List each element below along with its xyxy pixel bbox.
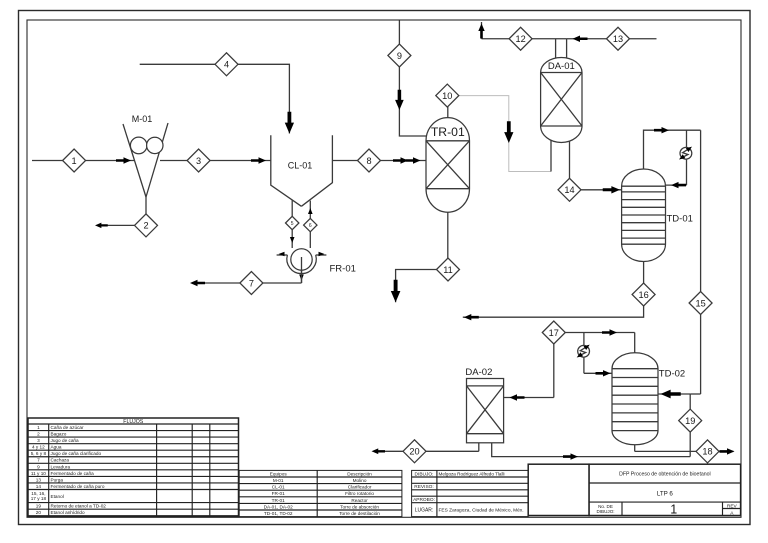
svg-text:Fermentado de caña puro: Fermentado de caña puro <box>51 484 105 489</box>
svg-text:Descripción: Descripción <box>347 471 372 476</box>
svg-text:13: 13 <box>613 34 623 44</box>
svg-text:TD-01, TD-02: TD-01, TD-02 <box>264 511 293 516</box>
wire stream 6 CL-01 bottom right outlet <box>308 201 313 248</box>
svg-text:17: 17 <box>549 328 559 338</box>
node stream 13 <box>607 27 630 50</box>
svg-text:TD-01: TD-01 <box>667 214 693 225</box>
wire stream 2 bagasse out of M-01 <box>95 197 146 228</box>
svg-text:7: 7 <box>249 278 254 288</box>
svg-text:CL-01: CL-01 <box>272 485 285 490</box>
wire stream 17 down to DA-02 <box>504 344 554 401</box>
node stream 3 <box>187 149 210 172</box>
wire stream 5 CL-01 bottom left outlet <box>290 200 295 248</box>
svg-text:CL-01: CL-01 <box>288 161 313 171</box>
node stream 1 <box>63 149 86 172</box>
node stream 5 <box>286 216 299 229</box>
node stream 7 <box>240 272 263 295</box>
svg-text:4 y 12: 4 y 12 <box>32 445 45 450</box>
svg-text:TD-02: TD-02 <box>659 368 685 379</box>
svg-text:DFP Proceso de obtención de bi: DFP Proceso de obtención de bioetanol <box>619 472 711 478</box>
svg-text:Torre de destilación: Torre de destilación <box>339 511 380 516</box>
svg-text:2: 2 <box>37 432 40 437</box>
svg-text:18: 18 <box>702 447 712 457</box>
svg-text:M-01: M-01 <box>132 114 153 124</box>
condenser HX on TD-01 <box>678 145 694 162</box>
svg-text:6: 6 <box>309 223 312 229</box>
node stream 9 <box>388 44 411 67</box>
wire condenser branch into TD-02 (reflux) <box>584 333 612 377</box>
node stream 4 <box>215 53 238 76</box>
wire TD-01 top vapor loop <box>644 127 701 169</box>
rotary filter FR-01 <box>277 249 356 283</box>
svg-text:8: 8 <box>366 156 371 166</box>
svg-text:19: 19 <box>36 504 42 509</box>
node stream 19 <box>679 409 702 432</box>
wire feed into TD-02 right side <box>658 390 690 399</box>
svg-text:3: 3 <box>37 438 40 443</box>
svg-text:Filtro rotatorio: Filtro rotatorio <box>345 491 374 496</box>
svg-text:12: 12 <box>515 34 525 44</box>
node stream 15 <box>689 292 712 315</box>
svg-text:Etanol: Etanol <box>51 494 64 499</box>
wire stream 15 down right side <box>690 130 700 394</box>
svg-text:14: 14 <box>564 185 574 195</box>
svg-text:9: 9 <box>397 51 402 61</box>
svg-text:9: 9 <box>37 464 40 469</box>
svg-text:Etanol anhídrido: Etanol anhídrido <box>51 510 86 515</box>
node stream 20 <box>403 440 426 463</box>
svg-text:20: 20 <box>36 510 42 515</box>
wire stream 17 TD-02 top vapor line <box>565 329 635 353</box>
wire stream 9 yeast inlet to TR-01 <box>395 21 426 137</box>
svg-text:1: 1 <box>72 156 77 166</box>
svg-text:LTP 6: LTP 6 <box>657 490 673 497</box>
node stream 12 <box>509 27 532 50</box>
tray column TD-01 <box>622 169 693 262</box>
svg-text:Jugo de caña clarificado: Jugo de caña clarificado <box>51 451 102 456</box>
svg-text:APROBO:: APROBO: <box>413 497 435 503</box>
wire stream 20 DA-02 bottoms out left <box>372 443 479 454</box>
wire stream 14 DA-01 bottoms to TD-01 <box>570 140 622 193</box>
wire stream 8 CL-01 to TR-01 <box>332 157 426 163</box>
title block <box>528 464 740 516</box>
svg-text:Melgoza Rodríguez Alfredo Tlal: Melgoza Rodríguez Alfredo Tlalli <box>439 471 505 476</box>
svg-text:Molino: Molino <box>353 478 367 483</box>
svg-text:FES Zaragoza, Ciudad de México: FES Zaragoza, Ciudad de México, Méx. <box>439 508 524 514</box>
svg-text:Caña de azúcar: Caña de azúcar <box>51 425 85 430</box>
svg-text:11 y 10: 11 y 10 <box>31 471 46 476</box>
svg-text:FR-01: FR-01 <box>330 264 356 275</box>
svg-text:DA-01: DA-01 <box>548 61 575 72</box>
svg-text:1: 1 <box>37 425 40 430</box>
node stream 11 <box>437 258 460 281</box>
svg-text:TR-01: TR-01 <box>431 125 465 139</box>
svg-text:REV: REV <box>727 504 738 510</box>
svg-text:FR-01: FR-01 <box>272 491 285 496</box>
svg-text:Agua: Agua <box>51 445 62 450</box>
svg-text:3: 3 <box>196 156 201 166</box>
wire stream 1 inlet to M-01 <box>32 157 135 163</box>
svg-text:19: 19 <box>685 416 695 426</box>
svg-text:Clarificador: Clarificador <box>348 485 372 490</box>
svg-text:TR-01: TR-01 <box>272 498 285 503</box>
svg-text:11: 11 <box>443 265 453 275</box>
svg-text:4: 4 <box>224 60 229 70</box>
svg-text:REVISO:: REVISO: <box>414 484 433 490</box>
wire stream 7 FR-01 filtrate out <box>190 257 304 286</box>
svg-text:M-01: M-01 <box>273 478 284 483</box>
wire stream 16 TD-01 bottoms out to left <box>463 262 644 321</box>
node stream 8 <box>358 149 381 172</box>
svg-text:16: 16 <box>638 290 648 300</box>
wire stream 10 gray vapor line TR-01 to DA-01 bottom <box>458 96 551 172</box>
svg-text:Fermentado de caña: Fermentado de caña <box>51 471 95 476</box>
svg-text:10: 10 <box>442 91 452 101</box>
svg-text:DA-01, DA-02: DA-01, DA-02 <box>264 504 294 509</box>
svg-text:20: 20 <box>409 447 419 457</box>
svg-text:7: 7 <box>37 458 40 463</box>
svg-text:5: 5 <box>291 221 294 227</box>
svg-text:13: 13 <box>36 477 42 482</box>
svg-text:2: 2 <box>143 221 148 231</box>
svg-text:DIBUJO:: DIBUJO: <box>596 509 614 514</box>
wire TR-01 top to node 10 <box>447 107 449 118</box>
svg-text:DA-02: DA-02 <box>465 367 492 378</box>
condenser HX on TD-02 <box>575 343 591 360</box>
svg-text:Purga: Purga <box>51 477 64 482</box>
absorber DA-02 <box>465 367 503 443</box>
svg-text:DIBUJO:: DIBUJO: <box>415 471 434 477</box>
svg-text:5, 6 y 8: 5, 6 y 8 <box>31 451 47 456</box>
wire stream 4 water to CL-01 <box>140 64 294 133</box>
node stream 6 <box>304 218 317 231</box>
svg-text:Bagazo: Bagazo <box>51 432 67 437</box>
svg-text:17 y 18: 17 y 18 <box>31 496 47 501</box>
svg-text:Equipos: Equipos <box>270 471 288 476</box>
mill M-01 <box>123 114 168 197</box>
wire stream 18 TD-02 bottoms product out <box>635 445 735 455</box>
node stream 16 <box>632 283 655 306</box>
flows table FLUJOS <box>28 418 239 517</box>
svg-text:No. DE: No. DE <box>598 504 613 509</box>
wire stream 11 TR-01 bottom out <box>391 212 448 302</box>
wire stream 19 recycle up to TD-02 feed <box>689 394 691 457</box>
absorber DA-01 <box>541 57 582 142</box>
node stream 2 <box>135 214 158 237</box>
node stream 14 <box>558 178 581 201</box>
node stream 10 <box>436 84 459 107</box>
svg-text:14: 14 <box>36 484 42 489</box>
equipment list table <box>239 470 402 516</box>
tray column TD-02 <box>612 353 685 445</box>
svg-text:Levadura: Levadura <box>51 464 71 469</box>
svg-text:Reactor: Reactor <box>351 498 368 503</box>
svg-text:Cachaza: Cachaza <box>51 458 70 463</box>
svg-text:Torre de absorción: Torre de absorción <box>340 504 379 509</box>
wire DA-02 bottoms to recycle line <box>492 443 691 460</box>
wire stream 13 water inlet to DA-01 top <box>567 36 657 60</box>
svg-text:Retorno de etanol a TD-02: Retorno de etanol a TD-02 <box>51 504 107 509</box>
svg-text:LUGAR:: LUGAR: <box>415 508 434 514</box>
wire stream 3 M-01 to CL-01 <box>160 157 271 163</box>
svg-text:Jugo de caña: Jugo de caña <box>51 438 80 443</box>
wire condenser branch into TD-01 (reflux) <box>666 130 687 188</box>
clarifier CL-01 <box>271 135 333 206</box>
signature block <box>412 470 529 516</box>
node stream 18 <box>696 440 719 463</box>
svg-text:1: 1 <box>670 502 677 516</box>
node stream 17 <box>542 321 565 344</box>
wire stream 12 DA-01 top offgas up to border <box>478 22 566 60</box>
reactor TR-01 <box>426 118 470 213</box>
svg-text:15: 15 <box>695 298 705 308</box>
